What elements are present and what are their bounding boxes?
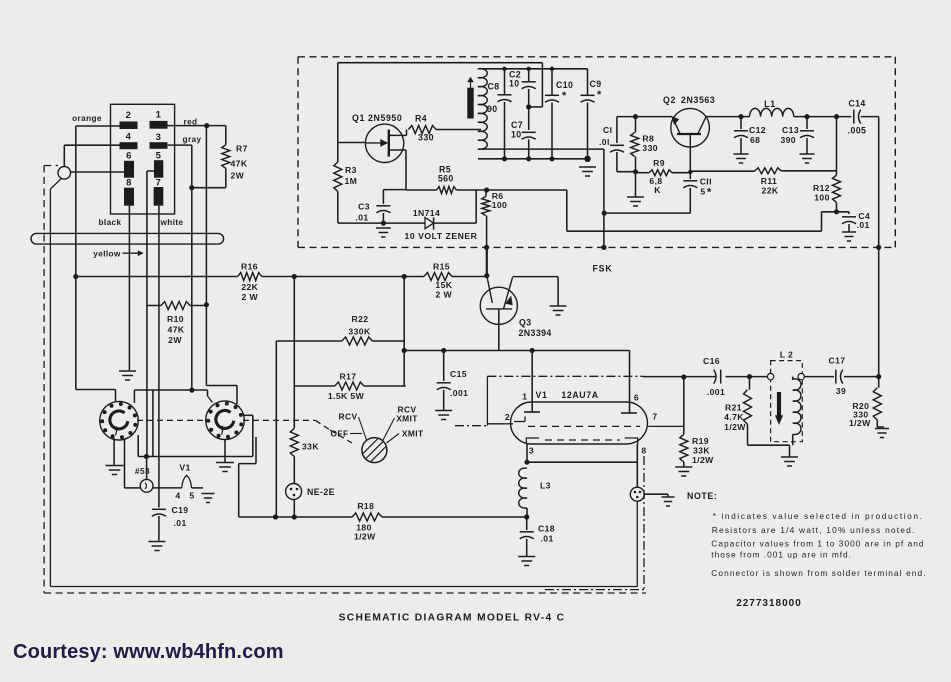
- svg-text:22K: 22K: [241, 282, 258, 292]
- svg-text:5: 5: [189, 491, 194, 501]
- svg-text:NOTE:: NOTE:: [687, 491, 717, 501]
- svg-text:Capacitor values from 1 to 300: Capacitor values from 1 to 3000 are in p…: [711, 539, 924, 549]
- svg-text:4.7K: 4.7K: [724, 412, 744, 422]
- svg-text:C18: C18: [538, 524, 555, 534]
- svg-text:560: 560: [438, 174, 454, 184]
- svg-text:.01: .01: [174, 518, 187, 528]
- svg-text:C12: C12: [749, 125, 766, 135]
- svg-text:10 VOLT ZENER: 10 VOLT ZENER: [405, 231, 478, 241]
- svg-text:100: 100: [492, 200, 508, 210]
- svg-text:C15: C15: [450, 369, 467, 379]
- svg-text:1/2W: 1/2W: [724, 422, 746, 432]
- svg-text:2 W: 2 W: [436, 290, 453, 300]
- svg-text:OFF: OFF: [331, 429, 349, 439]
- svg-text:Q1: Q1: [352, 113, 365, 123]
- svg-text:L1: L1: [764, 99, 776, 109]
- svg-text:1.5K 5W: 1.5K 5W: [328, 391, 365, 401]
- svg-text:R18: R18: [357, 501, 374, 511]
- svg-text:22K: 22K: [762, 186, 779, 196]
- svg-text:R19: R19: [692, 436, 709, 446]
- svg-text:6: 6: [126, 151, 132, 162]
- svg-text:R22: R22: [352, 314, 369, 324]
- svg-text:NE-2E: NE-2E: [307, 487, 335, 497]
- svg-text:those from .001 up are in mfd.: those from .001 up are in mfd.: [711, 550, 852, 560]
- svg-text:R10: R10: [167, 314, 184, 324]
- svg-text:330: 330: [642, 143, 658, 153]
- svg-text:7: 7: [156, 178, 162, 189]
- svg-text:C13: C13: [782, 125, 799, 135]
- svg-text:R16: R16: [241, 262, 258, 272]
- svg-text:1/2W: 1/2W: [849, 418, 871, 428]
- svg-text:.0l: .0l: [599, 137, 610, 147]
- svg-text:68: 68: [750, 135, 760, 145]
- svg-text:39: 39: [836, 386, 846, 396]
- svg-text:3: 3: [529, 446, 534, 456]
- svg-text:XMIT: XMIT: [402, 429, 424, 439]
- svg-text:* indicates value selected in: * indicates value selected in production…: [713, 511, 924, 521]
- svg-text:.001: .001: [707, 387, 725, 397]
- svg-text:47K: 47K: [231, 159, 248, 169]
- svg-text:C7: C7: [511, 120, 523, 130]
- svg-text:Cl: Cl: [603, 125, 612, 135]
- svg-text:Connector is shown from solder: Connector is shown from solder terminal …: [711, 568, 926, 578]
- svg-text:R8: R8: [642, 134, 654, 144]
- svg-text:L 2: L 2: [780, 350, 793, 360]
- svg-text:2: 2: [505, 412, 510, 422]
- svg-text:330K: 330K: [348, 327, 371, 337]
- svg-text:white: white: [160, 218, 184, 227]
- svg-text:SCHEMATIC DIAGRAM MODEL RV-4: SCHEMATIC DIAGRAM MODEL RV-4 C: [339, 613, 566, 624]
- svg-text:Q3: Q3: [519, 318, 532, 328]
- svg-text:R12: R12: [813, 183, 830, 193]
- svg-text:C19: C19: [172, 505, 189, 515]
- svg-text:*: *: [597, 89, 602, 101]
- svg-text:2N3394: 2N3394: [519, 328, 552, 338]
- svg-text:2W: 2W: [168, 335, 182, 345]
- svg-text:33K: 33K: [302, 442, 319, 452]
- svg-text:1: 1: [522, 392, 527, 402]
- svg-text:R11: R11: [761, 176, 778, 186]
- svg-text:FSK: FSK: [593, 264, 613, 274]
- svg-text:1/2W: 1/2W: [354, 531, 376, 541]
- svg-text:V1: V1: [179, 463, 190, 473]
- svg-text:1: 1: [156, 110, 162, 121]
- svg-text:1/2W: 1/2W: [692, 455, 714, 465]
- svg-text:.01: .01: [857, 220, 870, 230]
- svg-text:C8: C8: [488, 82, 500, 92]
- svg-text:black: black: [99, 218, 122, 227]
- svg-text:15K: 15K: [435, 280, 452, 290]
- svg-text:C10: C10: [556, 80, 573, 90]
- svg-text:.005: .005: [848, 126, 867, 136]
- svg-text:yellow: yellow: [93, 250, 121, 259]
- svg-text:4: 4: [126, 132, 132, 143]
- svg-text:.01: .01: [355, 213, 368, 223]
- svg-text:RCV: RCV: [339, 412, 358, 422]
- svg-text:R21: R21: [725, 403, 742, 413]
- svg-text:C16: C16: [703, 356, 720, 366]
- svg-text:*: *: [707, 187, 712, 199]
- svg-text:L3: L3: [540, 481, 551, 491]
- svg-text:47K: 47K: [168, 325, 185, 335]
- svg-text:R3: R3: [345, 165, 357, 175]
- svg-text:390: 390: [780, 135, 796, 145]
- svg-text:2W: 2W: [231, 171, 245, 181]
- svg-text:33K: 33K: [693, 446, 710, 456]
- svg-text:100: 100: [814, 193, 830, 203]
- svg-text:8: 8: [641, 446, 646, 456]
- svg-text:C9: C9: [590, 79, 602, 89]
- svg-text:Q2: Q2: [663, 95, 676, 105]
- svg-text:CII: CII: [700, 177, 712, 187]
- svg-text:R17: R17: [340, 372, 357, 382]
- svg-text:.001: .001: [450, 388, 468, 398]
- svg-text:R4: R4: [415, 114, 427, 124]
- svg-text:R9: R9: [653, 158, 665, 168]
- svg-text:.01: .01: [541, 534, 554, 544]
- svg-text:3: 3: [156, 132, 162, 143]
- svg-text:C17: C17: [829, 356, 846, 366]
- svg-text:XMIT: XMIT: [396, 414, 418, 424]
- svg-text:330: 330: [418, 133, 434, 143]
- svg-text:1M: 1M: [345, 176, 358, 186]
- svg-text:10: 10: [511, 130, 522, 140]
- svg-text:*: *: [562, 90, 567, 102]
- svg-text:6: 6: [634, 393, 639, 403]
- svg-text:2277318000: 2277318000: [736, 598, 802, 609]
- svg-text:K: K: [654, 185, 661, 195]
- svg-text:Courtesy: www.wb4hfn.com: Courtesy: www.wb4hfn.com: [13, 641, 284, 663]
- svg-text:7: 7: [652, 412, 657, 422]
- svg-text:5: 5: [156, 151, 162, 162]
- svg-text:2N5950: 2N5950: [368, 113, 402, 123]
- svg-text:R15: R15: [433, 262, 450, 272]
- svg-text:5: 5: [700, 187, 705, 197]
- svg-text:90: 90: [487, 104, 498, 114]
- svg-text:Resistors are 1/4 watt, 10% un: Resistors are 1/4 watt, 10% unless noted…: [712, 525, 916, 535]
- svg-text:V1: V1: [536, 390, 548, 400]
- svg-text:2 W: 2 W: [242, 292, 259, 302]
- svg-text:8: 8: [126, 178, 132, 189]
- svg-text:#53: #53: [135, 466, 150, 476]
- svg-text:10: 10: [509, 79, 520, 89]
- svg-text:4: 4: [175, 491, 180, 501]
- svg-text:R7: R7: [236, 144, 248, 154]
- svg-text:C14: C14: [848, 99, 865, 109]
- svg-text:C3: C3: [358, 202, 370, 212]
- svg-text:1N714: 1N714: [413, 208, 440, 218]
- svg-text:2: 2: [126, 110, 132, 121]
- svg-text:gray: gray: [183, 135, 202, 144]
- svg-text:orange: orange: [72, 114, 102, 123]
- svg-text:2N3563: 2N3563: [681, 95, 715, 105]
- svg-text:12AU7A: 12AU7A: [561, 390, 598, 400]
